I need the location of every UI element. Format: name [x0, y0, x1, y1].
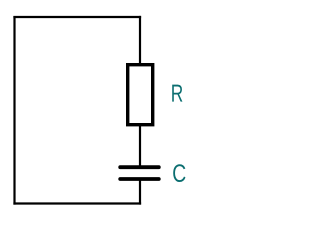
wire top horizontal [13, 16, 141, 18]
wire bottom horizontal [13, 202, 141, 204]
label C [173, 164, 185, 182]
resistor R [128, 65, 153, 125]
wire right top vertical [139, 16, 141, 65]
wire resistor to capacitor [139, 125, 141, 168]
label R [172, 85, 182, 102]
capacitor C [120, 167, 159, 179]
wire left vertical [13, 16, 15, 205]
wire capacitor to bottom [139, 179, 141, 205]
